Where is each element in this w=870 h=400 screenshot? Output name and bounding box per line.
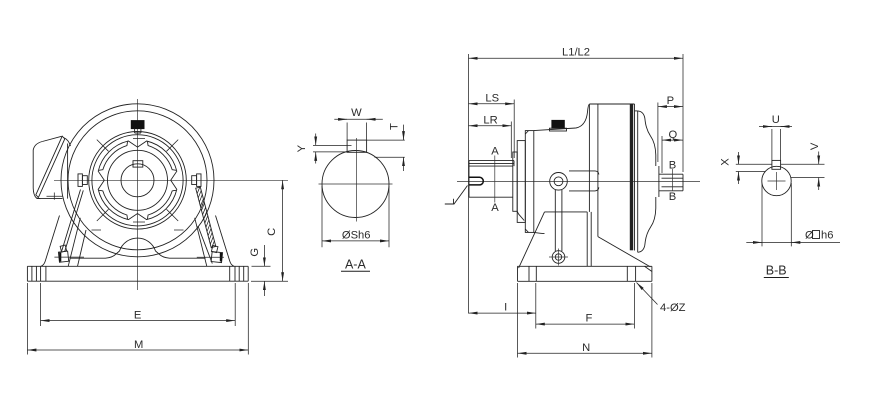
- dim G lower arrow: [263, 281, 265, 296]
- seal cover plate 1: [513, 152, 517, 211]
- side foot hole lines left: [529, 266, 536, 281]
- section line B-B: [672, 169, 674, 191]
- svg-text:LR: LR: [483, 114, 497, 126]
- bore keyway: [133, 161, 143, 167]
- X arrows: [738, 152, 740, 164]
- seal cover plate 2: [517, 141, 525, 223]
- left bracket right edge: [67, 144, 69, 199]
- pedestal left leg inner 2: [78, 230, 87, 266]
- ext line C bottom: [251, 280, 288, 282]
- dim P: [658, 106, 683, 108]
- eye break line bottom: [569, 187, 599, 191]
- right grease fitting inner: [192, 176, 197, 185]
- centerline horizontal: [319, 183, 393, 185]
- bottom hidden tick: [133, 221, 145, 223]
- pedestal saddle profile: [70, 238, 206, 258]
- foot left end: [26, 266, 28, 281]
- ext L1/L2 right: [682, 54, 684, 172]
- dim W arrows: [338, 118, 347, 120]
- leg tangent tick right: [174, 229, 184, 231]
- side foot right chamfer: [645, 266, 652, 271]
- square dim arrows: [755, 241, 762, 243]
- ext line E right: [234, 283, 236, 326]
- U arrows: [765, 126, 772, 128]
- ext F right: [633, 283, 635, 329]
- svg-text:X: X: [719, 158, 731, 166]
- ext line G top: [252, 265, 271, 267]
- dim C: [282, 180, 284, 281]
- left bracket top edge: [42, 136, 61, 141]
- centerline vertical: [356, 138, 358, 222]
- ØSh6 ext lines: [322, 186, 389, 247]
- W ext lines: [347, 123, 367, 141]
- pedestal left leg inner: [68, 218, 80, 266]
- right tie rod band: [196, 187, 216, 248]
- svg-text:I: I: [504, 302, 507, 314]
- X ext lines: [736, 164, 772, 171]
- foot slot lines right: [230, 266, 244, 281]
- side foot left end: [517, 266, 519, 281]
- cone top edge: [534, 128, 576, 131]
- pedestal right leg outer: [216, 216, 235, 267]
- leader hook at shaft end: [445, 186, 468, 205]
- ext line M right: [247, 283, 249, 355]
- svg-text:Q: Q: [669, 129, 678, 141]
- shaft circle A-A: [322, 151, 389, 218]
- leader 4-oZ: [637, 283, 658, 305]
- V ext lines: [781, 164, 825, 177]
- svg-text:C: C: [266, 228, 278, 236]
- Y ext lines: [313, 145, 352, 152]
- pedestal right leg inner 2: [198, 226, 212, 264]
- left bracket top curve: [64, 138, 71, 147]
- left rod bolt head: [58, 251, 68, 262]
- input bore circle: [121, 164, 154, 197]
- left grease fitting outer: [78, 174, 82, 187]
- vent plug base side: [550, 128, 567, 131]
- upper eye outer: [550, 173, 568, 191]
- lower eye center marks: [549, 249, 568, 266]
- dim F: [536, 323, 635, 325]
- key strip on shaft: [469, 161, 514, 167]
- dim G upper arrow: [263, 245, 265, 266]
- tie rod side: [555, 190, 562, 251]
- svg-text:G: G: [249, 248, 261, 257]
- right rod washer: [211, 245, 218, 252]
- dim Y arrows: [315, 134, 317, 146]
- cone to cylinder top curve: [576, 104, 590, 128]
- svg-text:A: A: [491, 202, 499, 214]
- svg-text:T: T: [388, 123, 400, 130]
- right rod hatching: [197, 186, 214, 248]
- pedestal left leg outer: [41, 216, 60, 267]
- housing outer circle: [61, 104, 214, 257]
- key square: [772, 160, 781, 169]
- cylinder left edge: [588, 104, 590, 212]
- ext LS right: [513, 100, 515, 159]
- dim I: [469, 312, 536, 314]
- end cover bottom profile: [638, 197, 656, 252]
- housing front plate: [525, 131, 534, 233]
- dim T arrows: [403, 125, 405, 141]
- foot bottom edge: [27, 280, 248, 282]
- shaft boss circle: [108, 150, 168, 210]
- dim W line: [334, 118, 383, 120]
- left bolt thick edge: [59, 252, 61, 261]
- ext LR right: [510, 122, 512, 159]
- vent plug cap side: [552, 120, 564, 128]
- key section rect: [347, 140, 367, 152]
- input shaft bottom: [469, 196, 513, 198]
- pedestal web line 2: [590, 212, 592, 266]
- end cover top profile: [638, 111, 656, 166]
- diagonal tick 135: [97, 140, 109, 152]
- flange dark band: [630, 104, 633, 250]
- svg-text:M: M: [134, 339, 143, 351]
- left bracket bottom edge: [37, 198, 63, 200]
- vent plug stem front: [135, 129, 141, 133]
- dim U line: [759, 126, 792, 128]
- plug hidden tick: [133, 138, 145, 140]
- svg-text:A-A: A-A: [345, 258, 367, 272]
- ext N left: [517, 283, 519, 358]
- svg-text:N: N: [582, 342, 590, 354]
- cover top connector: [635, 110, 638, 112]
- hub face: [658, 166, 660, 197]
- output shaft inner lines: [662, 178, 684, 187]
- side foot hole lines right: [627, 266, 635, 281]
- lower eye outer: [552, 251, 565, 264]
- dim N: [518, 352, 652, 354]
- foot top edge: [27, 265, 248, 267]
- svg-text:LS: LS: [485, 92, 499, 104]
- dim Q: [662, 139, 683, 141]
- pedestal web line 1: [586, 212, 588, 266]
- ring housing circle: [89, 132, 187, 230]
- input shaft end face: [468, 161, 470, 198]
- cycloid lobed profile outer: [98, 141, 177, 220]
- ext line M left: [26, 283, 28, 355]
- ext L1/L2 left: [468, 54, 470, 314]
- center hole at shaft end: [469, 177, 483, 185]
- input shaft top: [469, 165, 513, 167]
- section line A-A: [494, 156, 496, 203]
- right bolt tick line: [197, 256, 224, 258]
- pedestal top plate: [545, 211, 588, 213]
- U ext lines: [772, 129, 781, 160]
- centerline vertical: [137, 99, 139, 290]
- V arrows: [818, 152, 820, 165]
- shaft circle B-B: [762, 166, 791, 195]
- svg-text:4-ØZ: 4-ØZ: [660, 302, 686, 314]
- centerline: [457, 181, 700, 183]
- svg-text:E: E: [134, 309, 141, 321]
- center marks: [768, 172, 786, 190]
- ext P left: [657, 103, 659, 163]
- dim L1/L2: [469, 57, 684, 59]
- cover bottom step: [517, 211, 524, 220]
- right bolt thick edge: [220, 253, 222, 262]
- diagonal tick 315: [167, 209, 179, 221]
- side foot top: [518, 265, 652, 267]
- left rod washer: [60, 245, 66, 252]
- dim LR: [469, 125, 512, 127]
- square dim line: [746, 241, 840, 243]
- diagonal tick 225: [97, 209, 109, 221]
- flange joint line: [597, 104, 599, 237]
- cylinder top: [589, 103, 634, 105]
- dim LS: [469, 103, 515, 105]
- left tie rod: [62, 190, 84, 252]
- ext Q left: [661, 136, 663, 173]
- svg-text:h6: h6: [821, 230, 833, 242]
- svg-text:B: B: [669, 191, 676, 203]
- T ext lines: [367, 140, 405, 157]
- left bracket body outline: [33, 142, 42, 199]
- cylinder right edge: [634, 104, 636, 251]
- eye break line top: [569, 171, 599, 175]
- lower eye inner: [555, 254, 561, 260]
- side foot bottom: [518, 280, 652, 282]
- svg-text:P: P: [667, 95, 674, 107]
- right rod bolt head: [211, 252, 222, 263]
- ext F left: [535, 283, 537, 329]
- diagonal tick 45: [167, 140, 179, 152]
- output shaft outline: [659, 174, 683, 191]
- foot right end: [247, 266, 249, 281]
- ext N right: [651, 283, 653, 358]
- svg-text:ØSh6: ØSh6: [342, 230, 371, 242]
- front plate chamfers: [525, 131, 528, 233]
- centerline horizontal: [54, 179, 288, 181]
- side foot right end: [651, 266, 653, 281]
- left bracket bar: [36, 136, 65, 197]
- leg tangent tick left: [92, 229, 102, 231]
- dim M: [27, 349, 248, 351]
- svg-text:V: V: [809, 142, 821, 150]
- cone bottom edge: [534, 232, 545, 233]
- svg-text:L1/L2: L1/L2: [562, 47, 590, 59]
- svg-text:U: U: [772, 114, 780, 126]
- svg-text:F: F: [585, 313, 592, 325]
- housing rim circle: [68, 111, 207, 250]
- ext line E left: [40, 283, 42, 326]
- svg-text:B: B: [669, 160, 676, 172]
- pedestal left slant: [519, 212, 545, 268]
- square dim ext lines: [762, 183, 791, 246]
- svg-text:W: W: [351, 107, 362, 119]
- svg-text:Y: Y: [296, 144, 308, 152]
- dim E: [41, 320, 236, 322]
- pedestal right slope: [598, 237, 651, 267]
- left bolt tick line: [54, 256, 84, 258]
- svg-text:B-B: B-B: [766, 264, 787, 278]
- cycloid lobed profile inner: [99, 142, 176, 219]
- upper eye inner: [554, 177, 563, 186]
- pedestal right leg inner: [195, 218, 207, 266]
- ring inner circle: [92, 135, 183, 226]
- right grease fitting outer: [197, 174, 201, 187]
- vent plug cap front: [131, 121, 144, 129]
- foot slot lines left: [32, 266, 46, 281]
- end cover face: [637, 111, 639, 252]
- left grease fitting inner: [82, 176, 87, 185]
- left bracket tick: [47, 193, 63, 200]
- svg-text:A: A: [491, 146, 499, 158]
- dim ØSh6: [322, 240, 389, 242]
